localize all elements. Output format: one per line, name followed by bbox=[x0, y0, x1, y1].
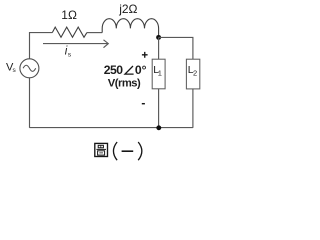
wire: L1 bottom lead bbox=[158, 89, 160, 128]
caption glyph 圖 bbox=[95, 143, 108, 156]
wire: node A down to L1 bbox=[158, 37, 160, 59]
source Vs circle bbox=[20, 59, 39, 78]
svg-text:2: 2 bbox=[193, 69, 197, 78]
svg-text:1Ω: 1Ω bbox=[61, 8, 77, 22]
source Vs sine wave bbox=[23, 65, 36, 71]
inductor L1 box bbox=[152, 59, 165, 89]
wire: L2 bottom lead bbox=[192, 89, 194, 128]
caption fullwidth right paren bbox=[138, 142, 142, 160]
svg-text:1: 1 bbox=[158, 69, 162, 78]
inductor L2 box bbox=[186, 59, 199, 89]
plus polarity mark bbox=[142, 52, 148, 58]
svg-text:0°: 0° bbox=[135, 63, 147, 77]
wire: resistor to inductor bbox=[87, 32, 102, 34]
angle symbol bbox=[125, 66, 134, 74]
resistor 1Ω zigzag bbox=[52, 27, 87, 37]
inductor j2Ω coil bbox=[102, 19, 158, 38]
wire: node A to right branch bbox=[159, 37, 193, 59]
caption fullwidth left paren bbox=[113, 142, 117, 160]
caption glyph 一 bbox=[122, 150, 134, 152]
minus polarity mark bbox=[142, 103, 145, 105]
svg-text:V(rms): V(rms) bbox=[108, 77, 141, 89]
svg-text:j2Ω: j2Ω bbox=[118, 2, 137, 16]
node B: junction dot bottom bbox=[156, 125, 161, 130]
current arrow i_s bbox=[43, 40, 108, 48]
svg-text:250: 250 bbox=[104, 63, 123, 77]
wire: source bottom lead bbox=[29, 78, 31, 128]
svg-text:s: s bbox=[68, 52, 72, 59]
wire: top-left corner from source to resistor bbox=[30, 33, 53, 59]
node A: junction dot top bbox=[156, 35, 161, 40]
wire: bottom rail bbox=[30, 127, 193, 129]
